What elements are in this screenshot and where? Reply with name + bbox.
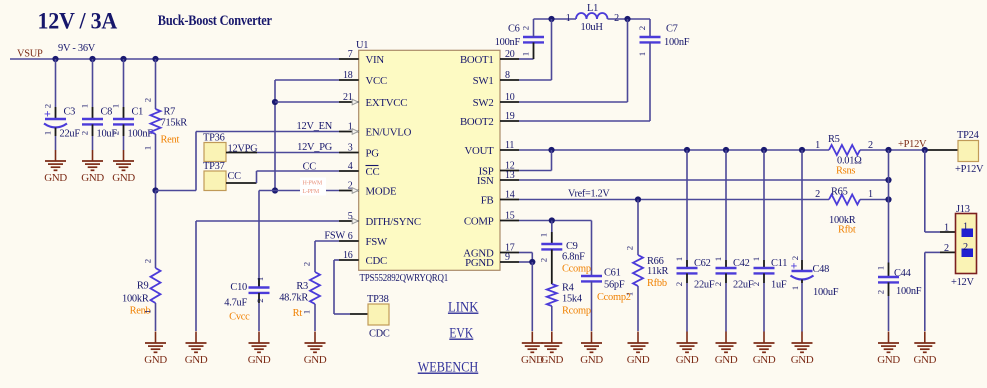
svg-text:GND: GND: [81, 172, 104, 184]
svg-text:R65: R65: [831, 187, 848, 198]
svg-text:C44: C44: [894, 268, 912, 279]
svg-text:C48: C48: [813, 264, 830, 275]
svg-text:15: 15: [505, 211, 515, 222]
svg-text:7: 7: [348, 49, 353, 60]
svg-text:2: 2: [143, 98, 153, 102]
svg-text:2: 2: [876, 290, 886, 294]
svg-text:19: 19: [505, 111, 515, 122]
svg-text:CC: CC: [303, 162, 317, 173]
svg-text:GND: GND: [627, 354, 650, 366]
svg-text:2: 2: [143, 259, 153, 263]
svg-text:2: 2: [674, 282, 684, 286]
svg-text:U1: U1: [356, 40, 368, 51]
svg-text:4: 4: [348, 161, 353, 172]
svg-text:C1: C1: [132, 107, 144, 118]
svg-text:100nF: 100nF: [896, 286, 922, 297]
svg-text:12V / 3A: 12V / 3A: [38, 9, 118, 34]
svg-text:1: 1: [111, 104, 121, 108]
svg-text:GND: GND: [791, 354, 814, 366]
svg-text:VCC: VCC: [366, 75, 387, 87]
svg-text:LINK: LINK: [448, 300, 479, 316]
svg-text:DITH/SYNC: DITH/SYNC: [366, 216, 421, 228]
svg-text:C62: C62: [694, 258, 711, 269]
svg-text:Cvcc: Cvcc: [229, 312, 250, 323]
svg-text:100kR: 100kR: [122, 294, 149, 305]
svg-text:3: 3: [348, 143, 353, 154]
svg-text:H-PWM: H-PWM: [303, 181, 323, 187]
svg-text:1: 1: [751, 257, 761, 261]
svg-text:MODE: MODE: [366, 186, 397, 198]
svg-text:SW1: SW1: [473, 75, 494, 87]
svg-text:22uF: 22uF: [60, 129, 81, 140]
svg-text:1uF: 1uF: [771, 280, 787, 291]
svg-text:1: 1: [255, 277, 265, 281]
svg-text:VOUT: VOUT: [465, 145, 495, 157]
svg-text:2: 2: [963, 242, 968, 253]
svg-text:GND: GND: [144, 354, 167, 366]
svg-text:CC: CC: [228, 171, 242, 182]
svg-text:100nF: 100nF: [664, 37, 690, 48]
svg-text:1: 1: [43, 131, 53, 135]
svg-text:2: 2: [539, 258, 549, 262]
svg-text:1: 1: [521, 52, 531, 56]
svg-text:COMP: COMP: [464, 216, 494, 228]
svg-text:2: 2: [625, 246, 635, 250]
svg-text:GND: GND: [914, 354, 937, 366]
svg-text:R4: R4: [562, 283, 575, 294]
svg-text:PGND: PGND: [465, 257, 494, 269]
svg-text:R7: R7: [164, 107, 176, 118]
svg-text:PG: PG: [366, 148, 380, 160]
svg-text:16: 16: [343, 250, 353, 261]
svg-text:1: 1: [944, 223, 949, 234]
svg-text:C42: C42: [733, 258, 750, 269]
svg-text:2: 2: [614, 13, 619, 24]
svg-text:1: 1: [566, 13, 571, 24]
svg-text:1: 1: [80, 104, 90, 108]
svg-text:Buck-Boost Converter: Buck-Boost Converter: [158, 13, 273, 29]
svg-text:C10: C10: [230, 282, 247, 293]
svg-text:Rfbb: Rfbb: [647, 278, 667, 289]
svg-text:+P12V: +P12V: [898, 139, 927, 150]
svg-text:2: 2: [637, 26, 647, 30]
svg-text:GND: GND: [753, 354, 776, 366]
svg-text:1: 1: [302, 310, 312, 314]
svg-text:9: 9: [505, 252, 510, 263]
svg-text:GND: GND: [44, 172, 67, 184]
svg-text:ISN: ISN: [477, 175, 494, 187]
svg-text:1: 1: [143, 146, 153, 150]
svg-text:TP38: TP38: [367, 294, 389, 305]
svg-text:1: 1: [637, 52, 647, 56]
svg-text:BOOT1: BOOT1: [460, 54, 494, 66]
svg-text:2: 2: [815, 189, 820, 200]
svg-text:2: 2: [521, 26, 531, 30]
svg-text:GND: GND: [676, 354, 699, 366]
svg-text:2: 2: [944, 243, 949, 254]
svg-text:18: 18: [343, 70, 353, 81]
svg-text:1: 1: [539, 233, 549, 237]
svg-text:CDC: CDC: [366, 255, 387, 267]
svg-text:EVK: EVK: [449, 326, 474, 342]
svg-text:12V_PG: 12V_PG: [297, 142, 333, 153]
svg-text:SW2: SW2: [473, 97, 494, 109]
svg-text:C6: C6: [508, 24, 520, 35]
svg-text:20: 20: [505, 49, 515, 60]
svg-text:100nF: 100nF: [128, 129, 154, 140]
svg-text:CDC: CDC: [369, 329, 390, 340]
svg-text:TPS552892QWRYQRQ1: TPS552892QWRYQRQ1: [360, 273, 449, 284]
svg-text:1: 1: [815, 140, 820, 151]
svg-text:BOOT2: BOOT2: [460, 116, 494, 128]
svg-text:2: 2: [255, 298, 265, 302]
svg-text:715kR: 715kR: [161, 118, 188, 129]
svg-text:EXTVCC: EXTVCC: [366, 97, 408, 109]
svg-text:4.7uF: 4.7uF: [224, 298, 247, 309]
svg-text:L-PFM: L-PFM: [303, 189, 320, 195]
svg-text:R5: R5: [828, 134, 840, 145]
svg-text:Ccomp2: Ccomp2: [597, 292, 631, 303]
svg-text:FSW: FSW: [324, 231, 345, 242]
svg-text:EN/UVLO: EN/UVLO: [366, 127, 412, 139]
svg-text:2: 2: [302, 262, 312, 266]
svg-text:L1: L1: [587, 3, 598, 14]
svg-text:GND: GND: [521, 354, 544, 366]
svg-text:2: 2: [713, 282, 723, 286]
svg-text:100uF: 100uF: [813, 287, 839, 298]
svg-text:Vref=1.2V: Vref=1.2V: [568, 189, 610, 200]
svg-text:1: 1: [143, 309, 153, 313]
svg-text:1: 1: [713, 257, 723, 261]
svg-text:9V - 36V: 9V - 36V: [58, 43, 96, 54]
svg-text:11: 11: [505, 140, 514, 151]
svg-text:8: 8: [505, 70, 510, 81]
svg-text:R3: R3: [296, 281, 308, 292]
svg-text:1: 1: [963, 222, 968, 233]
svg-text:CC: CC: [366, 166, 380, 178]
svg-text:FSW: FSW: [366, 236, 389, 248]
svg-text:+: +: [44, 107, 51, 121]
svg-text:21: 21: [343, 92, 353, 103]
svg-text:22uF: 22uF: [694, 280, 715, 291]
svg-text:10: 10: [505, 92, 515, 103]
svg-text:R9: R9: [137, 281, 149, 292]
svg-text:TP36: TP36: [203, 133, 225, 144]
svg-text:+12V: +12V: [951, 277, 975, 288]
svg-text:GND: GND: [304, 354, 327, 366]
svg-text:C7: C7: [666, 24, 678, 35]
svg-text:TP24: TP24: [957, 130, 980, 141]
svg-text:C3: C3: [64, 107, 76, 118]
svg-text:J13: J13: [956, 204, 970, 215]
svg-text:2: 2: [751, 282, 761, 286]
svg-text:FB: FB: [481, 195, 494, 207]
svg-text:6: 6: [348, 231, 353, 242]
svg-text:48.7kR: 48.7kR: [279, 293, 308, 304]
svg-text:Rent: Rent: [161, 135, 180, 146]
svg-text:11kR: 11kR: [647, 266, 668, 277]
svg-text:C9: C9: [566, 241, 578, 252]
svg-text:GND: GND: [715, 354, 738, 366]
svg-text:Rcomp: Rcomp: [562, 306, 591, 317]
svg-text:C11: C11: [771, 258, 787, 269]
svg-text:Ccomp: Ccomp: [562, 264, 591, 275]
svg-text:VIN: VIN: [366, 54, 385, 66]
svg-text:GND: GND: [541, 354, 564, 366]
svg-text:2: 2: [111, 131, 121, 135]
svg-text:GND: GND: [185, 354, 208, 366]
svg-text:6.8nF: 6.8nF: [562, 252, 585, 263]
svg-text:TP37: TP37: [203, 161, 225, 172]
svg-text:VSUP: VSUP: [17, 49, 43, 60]
svg-text:100nF: 100nF: [495, 37, 521, 48]
svg-text:2: 2: [868, 140, 873, 151]
svg-text:1: 1: [674, 257, 684, 261]
svg-text:WEBENCH: WEBENCH: [418, 360, 479, 376]
svg-text:10uH: 10uH: [581, 22, 604, 33]
svg-text:Rsns: Rsns: [836, 166, 855, 177]
svg-text:12V_EN: 12V_EN: [297, 121, 333, 132]
svg-text:GND: GND: [112, 172, 135, 184]
svg-text:GND: GND: [248, 354, 271, 366]
svg-text:14: 14: [505, 190, 515, 201]
svg-text:13: 13: [505, 170, 515, 181]
svg-text:56pF: 56pF: [604, 280, 625, 291]
svg-text:1: 1: [876, 266, 886, 270]
svg-text:2: 2: [80, 131, 90, 135]
svg-text:GND: GND: [580, 354, 603, 366]
svg-text:2: 2: [790, 256, 800, 260]
svg-text:Rfbt: Rfbt: [838, 225, 856, 236]
svg-text:+P12V: +P12V: [955, 164, 984, 175]
svg-text:15k4: 15k4: [562, 294, 583, 305]
svg-text:C61: C61: [604, 268, 621, 279]
svg-text:1: 1: [868, 189, 873, 200]
svg-text:GND: GND: [877, 354, 900, 366]
svg-text:1: 1: [790, 286, 800, 290]
